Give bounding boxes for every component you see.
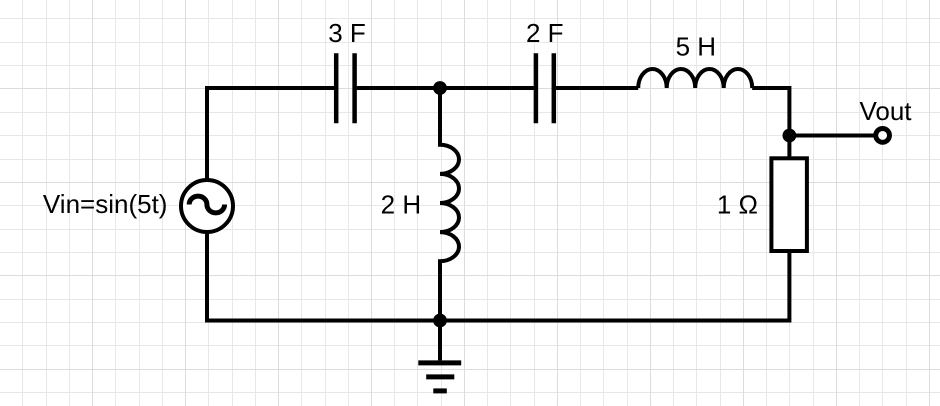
node B (right junction) [783,129,797,143]
wire from node A to capacitor C2 [440,86,534,90]
svg-text:2 H: 2 H [381,190,421,220]
inductor L1 (2 H, vertical) [440,94,459,321]
wire from resistor R1 to bottom-right corner and node C [440,251,789,321]
wire from inductor L2 to node B [752,88,789,136]
wire from node B to resistor R1 [787,136,791,159]
ground [418,314,461,391]
AC source V1 (Vin) [181,180,233,232]
capacitor C2 (2 F) [536,53,554,123]
svg-text:Vout: Vout [859,96,912,126]
svg-text:1 Ω: 1 Ω [717,190,758,220]
inductor L2 (5 H, horizontal) [638,69,752,88]
wire from capacitor C1 to node A [357,86,440,90]
wire from capacitor C2 to inductor L2 [556,86,638,90]
node A (top junction) [433,81,447,95]
output terminal Vout [876,129,890,143]
svg-text:3 F: 3 F [328,18,366,48]
wire from source top to capacitor C1 [207,88,334,180]
svg-text:2 F: 2 F [526,18,564,48]
svg-text:5 H: 5 H [676,32,716,62]
resistor R1 (1 Ohm) [771,158,807,251]
wire from node C to source bottom [207,232,440,321]
capacitor C1 (3 F) [336,53,354,123]
wire from node B to output terminal [789,134,873,138]
svg-text:Vin=sin(5t): Vin=sin(5t) [43,189,168,219]
node C (bottom junction) [433,314,447,328]
